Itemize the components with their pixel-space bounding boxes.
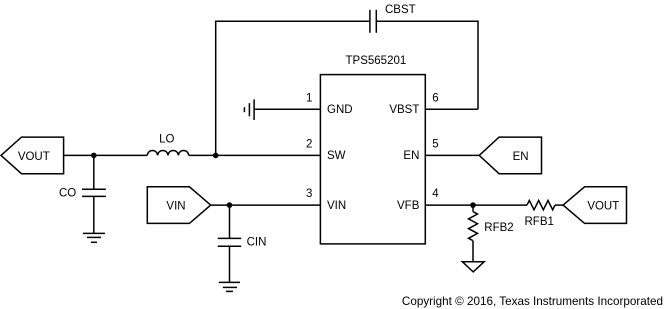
capacitor CO [82, 189, 106, 196]
wire CO branch lower [93, 196, 95, 233]
wire CIN branch upper [229, 205, 231, 238]
svg-text:EN: EN [513, 151, 529, 163]
svg-text:6: 6 [432, 93, 438, 105]
ground triangle below RFB2 [462, 262, 484, 272]
wire top bootstrap net right segment [376, 21, 478, 109]
svg-text:SW: SW [327, 150, 346, 162]
svg-text:VOUT: VOUT [587, 201, 619, 213]
wire VBST pin 6 [425, 108, 478, 110]
wire CIN branch lower [229, 246, 231, 282]
svg-text:RFB2: RFB2 [484, 222, 513, 234]
wire top bootstrap net left segment [216, 21, 370, 155]
svg-text:VFB: VFB [397, 200, 420, 212]
svg-text:EN: EN [403, 150, 419, 162]
resistor RFB2 [469, 212, 478, 241]
IC U1 TPS565201 body [320, 75, 425, 244]
ground at GND pin [244, 99, 254, 120]
node VOUT-CO junction [91, 153, 97, 159]
svg-text:VBST: VBST [389, 104, 419, 116]
node VFB junction [470, 202, 476, 208]
capacitor CBST [370, 10, 376, 33]
svg-text:CBST: CBST [385, 4, 416, 16]
svg-text:2: 2 [306, 139, 312, 151]
svg-text:TPS565201: TPS565201 [346, 55, 407, 67]
wire EN pin 5 [425, 154, 479, 156]
wire GND pin 1 [254, 108, 320, 110]
svg-text:1: 1 [306, 93, 312, 105]
ground below CIN [219, 282, 240, 291]
wire RFB2 to ground [472, 241, 474, 262]
svg-text:RFB1: RFB1 [525, 216, 554, 228]
wire CO branch upper [93, 155, 95, 189]
port flag EN [479, 137, 541, 174]
svg-text:CIN: CIN [247, 237, 267, 249]
svg-text:3: 3 [306, 188, 312, 200]
inductor LO [147, 150, 188, 155]
svg-text:Copyright © 2016, Texas Instru: Copyright © 2016, Texas Instruments Inco… [402, 295, 663, 308]
resistor RFB1 [527, 200, 555, 209]
wire SW pin 2 [189, 154, 321, 156]
wire VIN pin 3 [211, 204, 321, 206]
svg-text:VOUT: VOUT [18, 151, 50, 163]
svg-text:GND: GND [327, 104, 353, 116]
wire VFB pin 4 [425, 204, 527, 206]
port flag VOUT right [563, 187, 626, 224]
capacitor CIN [218, 238, 241, 246]
port flag VIN [147, 187, 210, 224]
svg-text:4: 4 [432, 188, 439, 200]
wire VOUT to CO node [64, 154, 148, 156]
node SW-LO junction [213, 153, 219, 159]
ground below CO [83, 233, 105, 242]
svg-text:VIN: VIN [327, 200, 346, 212]
wire RFB1 to VOUT flag [555, 204, 563, 206]
wire RFB2 top stub [472, 205, 474, 212]
svg-text:LO: LO [159, 134, 174, 146]
svg-text:5: 5 [432, 139, 438, 151]
port flag VOUT left [1, 137, 64, 174]
node VIN-CIN junction [227, 202, 233, 208]
svg-text:CO: CO [59, 188, 76, 200]
svg-text:VIN: VIN [166, 201, 185, 213]
